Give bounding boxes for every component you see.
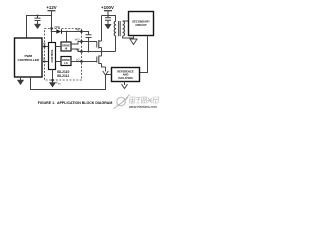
block CONTROL bbox=[49, 43, 56, 70]
pin label HS bbox=[76, 48, 80, 52]
wire LI bbox=[42, 61, 49, 63]
ground below C3 bbox=[105, 24, 111, 29]
pin label LO bbox=[76, 58, 81, 62]
PWM controller box U2 bbox=[15, 38, 43, 77]
wire bus to transformer bbox=[108, 16, 116, 22]
wire driver to HS bbox=[71, 49, 81, 52]
pin label LI bbox=[43, 57, 46, 61]
node junction bus bbox=[107, 15, 109, 17]
node junction boot cap / HS bbox=[88, 51, 90, 53]
pin HO square bbox=[80, 40, 82, 42]
transistor Q1 high-side fet bbox=[96, 42, 98, 48]
pin label HB bbox=[76, 28, 80, 32]
wire VDD drop bbox=[51, 16, 53, 29]
wire low driver to LO bbox=[71, 61, 81, 63]
block low-side driver bbox=[61, 57, 71, 66]
wire top rail to PWM bbox=[27, 16, 52, 39]
pin VDD square bbox=[50, 27, 52, 29]
node junction cap tap bbox=[37, 15, 39, 17]
svg-text:+100V: +100V bbox=[101, 5, 114, 10]
wire LO to gate Q2 bbox=[82, 61, 97, 63]
wire control to low driver bbox=[56, 61, 62, 63]
pin HB square bbox=[80, 30, 82, 32]
svg-text:www.elecfans.com: www.elecfans.com bbox=[129, 105, 157, 109]
ground arrow below reference box bbox=[124, 82, 126, 86]
wire secondary bottom bbox=[123, 36, 134, 38]
diode D1 bootstrap bbox=[52, 31, 57, 33]
ground VSS bbox=[49, 83, 55, 88]
capacitor C2 bootstrap bbox=[86, 35, 92, 52]
ground below C1 bbox=[34, 24, 40, 29]
wire control to high driver bbox=[56, 46, 62, 48]
capacitor C1 vdd bypass bbox=[35, 16, 41, 25]
wire primary bottom to switch node bbox=[115, 36, 117, 51]
wire +100V stem bbox=[107, 11, 109, 16]
pin VSS square bbox=[51, 79, 53, 81]
svg-text:ISL2111: ISL2111 bbox=[57, 74, 69, 78]
svg-text:CIRCUIT: CIRCUIT bbox=[135, 23, 147, 27]
svg-text:+12V: +12V bbox=[46, 5, 56, 10]
wire VDD internal bbox=[51, 29, 53, 43]
wire HS switch node bbox=[82, 51, 116, 53]
pin label HO bbox=[75, 38, 80, 42]
svg-text:FIGURE 1. APPLICATION BLOCK D: FIGURE 1. APPLICATION BLOCK DIAGRAM bbox=[38, 101, 113, 105]
watermark CJK text bbox=[129, 97, 158, 104]
wire secondary top bbox=[123, 20, 129, 22]
transformer T1 secondary winding bbox=[123, 21, 125, 36]
node +12V rail bar bbox=[48, 10, 56, 12]
svg-text:CONTROLLER: CONTROLLER bbox=[18, 58, 40, 62]
svg-text:HI: HI bbox=[65, 48, 68, 51]
wire HI bbox=[42, 46, 49, 48]
pin HI square bbox=[44, 46, 46, 48]
wire feedback bbox=[31, 75, 112, 90]
IC dashed boundary ISL2110 bbox=[45, 29, 82, 81]
ground below PWM controller bbox=[20, 77, 22, 80]
transformer T1 core bbox=[119, 21, 121, 36]
ground secondary (open) bbox=[133, 36, 135, 40]
svg-text:CONTROL: CONTROL bbox=[50, 49, 54, 63]
pin HS square bbox=[80, 50, 82, 52]
pin LO square bbox=[80, 60, 82, 62]
node +100V supply label bbox=[101, 5, 114, 10]
transformer T1 primary winding bbox=[114, 21, 116, 36]
svg-text:HB: HB bbox=[76, 28, 80, 32]
wire driver to HO bbox=[71, 42, 81, 45]
svg-text:LO: LO bbox=[64, 62, 68, 65]
wire +12V stem bbox=[51, 11, 53, 16]
node +100V rail bar bbox=[104, 10, 112, 12]
wire HB external bbox=[82, 32, 89, 35]
wire diode cathode to HB bbox=[62, 31, 82, 33]
node junction switch node bbox=[101, 51, 103, 53]
pin label VDD bbox=[54, 25, 60, 29]
wire HO to gate Q1 bbox=[82, 41, 97, 43]
svg-text:ISOLATION: ISOLATION bbox=[118, 76, 132, 80]
wire secondary out to reference bbox=[140, 36, 148, 73]
wire VSS internal bbox=[52, 70, 54, 83]
watermark logo icon bbox=[114, 95, 130, 109]
capacitor C3 bus bbox=[105, 16, 111, 25]
block high-side driver bbox=[61, 42, 71, 51]
svg-text:SS: SS bbox=[58, 83, 61, 85]
wire bus to Q1 drain bbox=[102, 15, 109, 17]
node +12V supply label bbox=[46, 5, 56, 10]
wire HB to high driver bbox=[66, 32, 68, 42]
svg-text:VDD: VDD bbox=[54, 25, 60, 29]
node junction HB to driver bbox=[66, 31, 68, 33]
part number text bbox=[57, 70, 69, 78]
node diode anode junction bbox=[51, 31, 53, 33]
reference and isolation box bbox=[112, 68, 140, 82]
pin label HI bbox=[43, 42, 46, 46]
pin LI square bbox=[44, 61, 46, 63]
wire Q1 drain to bus bbox=[101, 16, 103, 42]
pin label VSS bbox=[56, 81, 61, 86]
secondary circuit box bbox=[129, 12, 154, 36]
ground arrow Q2 source bbox=[103, 71, 109, 75]
transistor Q2 low-side fet bbox=[96, 57, 98, 63]
